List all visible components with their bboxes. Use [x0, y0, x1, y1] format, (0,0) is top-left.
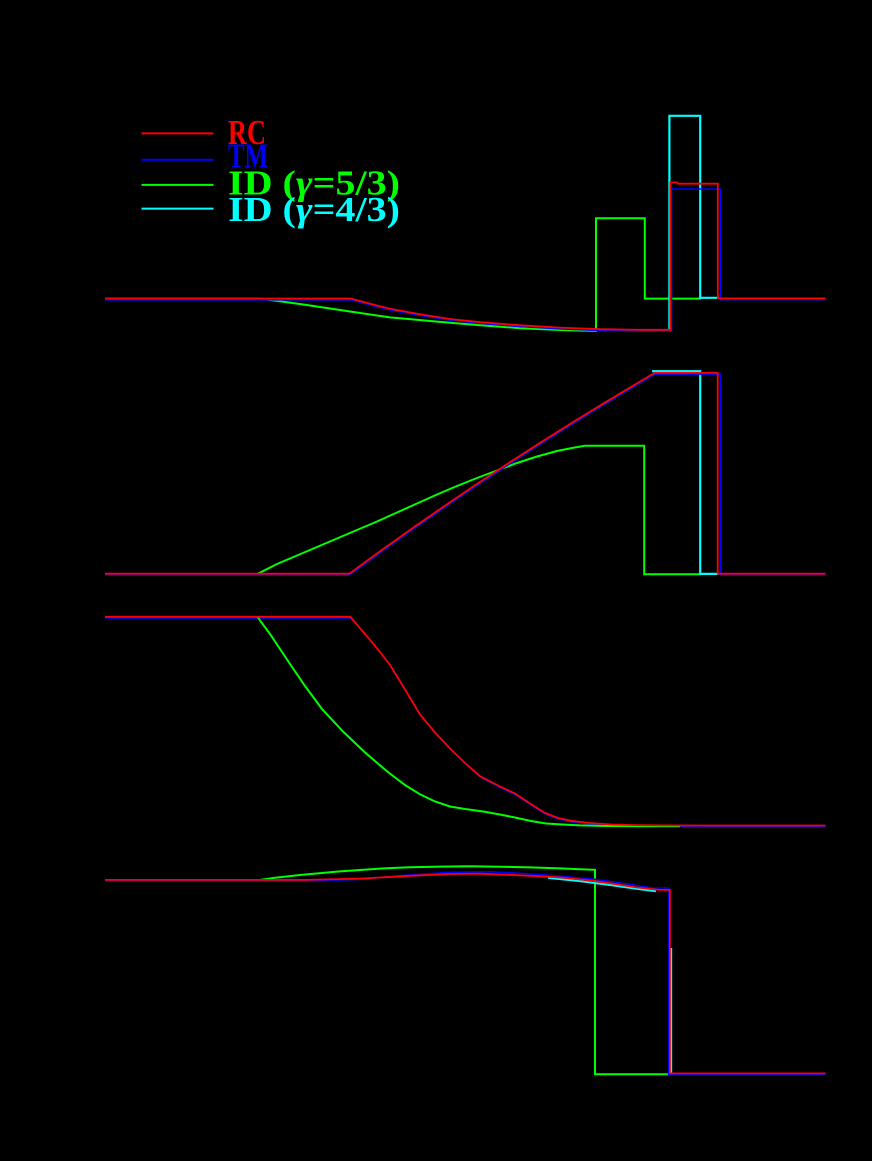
panel 3 red curve RC: [105, 617, 826, 826]
panel 1 blue curve TM: [105, 189, 826, 331]
panel 1 green curve ID gamma=5/3: [105, 218, 701, 331]
panel 2 red curve RC: [105, 373, 826, 574]
legend RC line: [142, 132, 214, 134]
panel 2 blue curve TM: [105, 374, 826, 575]
panel 4 blue curve TM: [105, 872, 826, 1075]
panel 4 green curve ID gamma=5/3: [258, 866, 671, 1074]
panel 2 green curve ID gamma=5/3: [105, 446, 701, 574]
legend TM line: [142, 159, 214, 161]
panel 3 green curve ID gamma=5/3: [258, 617, 680, 826]
panel 4 cyan curve ID gamma=4/3: [548, 878, 671, 1074]
panel 3 blue curve TM: [105, 618, 826, 827]
panel 1 red curve RC: [105, 182, 826, 329]
panel 1 cyan curve ID gamma=4/3: [669, 116, 719, 331]
panel 4 red curve RC: [105, 874, 826, 1074]
legend ID gamma=5/3 line: [142, 184, 214, 186]
legend ID gamma=4/3 line: [142, 208, 214, 210]
panel 2 cyan curve ID gamma=4/3: [652, 371, 719, 574]
svg-text:ID (γ=4/3): ID (γ=4/3): [228, 190, 400, 229]
